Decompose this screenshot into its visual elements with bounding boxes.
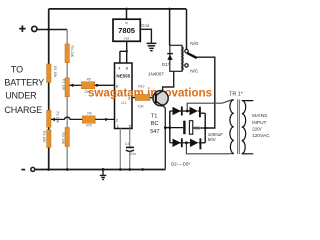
capacitor C4: [126, 146, 134, 148]
label TO BATTERY UNDER CHARGE: [4, 64, 44, 114]
ground symbol at 7805: [147, 43, 157, 50]
wire battery plus lead: [37, 29, 67, 31]
svg-text:Gnd: Gnd: [141, 23, 150, 28]
wire DC minus to emitter line: [165, 127, 183, 129]
wire collector to relay coil: [163, 71, 174, 90]
terminal -: [21, 169, 25, 171]
svg-text:C4: C4: [125, 142, 130, 146]
svg-text:T1: T1: [151, 114, 158, 120]
svg-text:out: out: [124, 36, 130, 41]
wire emitter to bottom rail: [164, 106, 166, 169]
resistor R1: [47, 64, 51, 82]
wire second vertical bus: [66, 30, 68, 170]
diode D2: [173, 107, 181, 115]
resistor R2: [47, 130, 51, 148]
ground symbol on bottom rail: [102, 170, 104, 175]
preset P2 (middle pot): [65, 78, 69, 97]
svg-text:N/O: N/O: [190, 41, 199, 46]
wire R5 to pin 6: [95, 84, 115, 86]
wire pin 3 to R10: [132, 97, 135, 99]
wire 7805 gnd: [140, 29, 151, 42]
wire AC2 bottom to transformer: [186, 143, 233, 154]
svg-text:R1 10K: R1 10K: [53, 66, 57, 78]
svg-text:D2----D5*: D2----D5*: [171, 162, 190, 167]
relay coil box: [169, 9, 171, 45]
svg-text:R3 10K: R3 10K: [61, 133, 65, 145]
wire bridge top row: [170, 110, 201, 112]
node + junction on left bus: [47, 28, 50, 31]
wire NE555 pin 1 to rail: [119, 129, 121, 170]
core lines: [238, 100, 240, 155]
label mains input: [252, 113, 270, 139]
svg-text:BATTERY: BATTERY: [4, 77, 44, 87]
regulator U2 7805: [126, 9, 128, 19]
svg-text:R5: R5: [87, 77, 91, 81]
wire bridge bottom row: [170, 142, 201, 144]
svg-text:INPUT: INPUT: [252, 120, 266, 126]
svg-text:47K: 47K: [86, 123, 93, 127]
svg-text:C5: C5: [194, 125, 200, 130]
wire pot P2 wiper to pin6: [70, 84, 82, 86]
svg-text:D1*: D1*: [162, 62, 170, 67]
svg-text:BC: BC: [151, 121, 159, 127]
wire 7805 out to pins 4 8: [120, 41, 127, 63]
svg-text:R4 22K: R4 22K: [70, 46, 74, 58]
resistor R5: [81, 82, 94, 89]
diode D4: [173, 139, 181, 147]
relay switch N/O N/C: [186, 9, 188, 50]
resistor R10: [135, 95, 150, 101]
diode D3: [190, 107, 198, 115]
wire R10 to base: [150, 97, 156, 99]
capacitor C5: [183, 121, 185, 135]
wire relay pole to DC plus: [197, 57, 215, 128]
terminal +: [19, 25, 25, 32]
svg-text:7805: 7805: [118, 26, 136, 35]
svg-text:547: 547: [150, 129, 159, 135]
svg-text:MAINS: MAINS: [252, 113, 267, 119]
diode D1 1N4007 on relay left edge: [167, 53, 173, 55]
resistor R4: [65, 44, 69, 63]
node junction pin6 wire: [96, 84, 99, 87]
node rail junctions: [47, 168, 50, 171]
svg-text:220/: 220/: [252, 126, 262, 132]
svg-text:P1 10K: P1 10K: [56, 112, 60, 124]
svg-text:UNDER: UNDER: [5, 91, 37, 101]
svg-text:1N4007: 1N4007: [148, 71, 164, 76]
wire bridge left column: [169, 111, 171, 143]
svg-text:R10: R10: [138, 85, 144, 89]
wire pot P1 wiper to pin2 with hop: [51, 117, 82, 119]
wire top rail: [49, 8, 187, 10]
preset P1 (left pot): [47, 110, 51, 127]
diode D5: [190, 139, 198, 147]
resistor R6: [82, 116, 95, 123]
svg-text:120VAC: 120VAC: [252, 133, 270, 139]
wire bridge right column: [204, 113, 206, 143]
svg-text:R2 10K: R2 10K: [42, 131, 46, 143]
wire top row to DC plus column: [201, 112, 205, 114]
svg-text:®: ®: [84, 86, 87, 91]
svg-text:TO: TO: [11, 64, 23, 74]
svg-text:NE555: NE555: [116, 74, 130, 79]
svg-text:R6: R6: [87, 112, 91, 116]
resistor R3: [65, 128, 69, 147]
secondary winding right: [242, 100, 246, 154]
svg-text:01u: 01u: [130, 152, 136, 156]
wire bottom rail: [35, 169, 165, 171]
svg-text:CHARGE: CHARGE: [4, 105, 42, 115]
wire left vertical bus: [48, 9, 50, 170]
svg-text:P2 10K: P2 10K: [62, 79, 66, 91]
svg-text:in: in: [125, 20, 128, 25]
primary winding left: [230, 100, 234, 154]
svg-text:50V: 50V: [208, 137, 216, 142]
svg-text:U1: U1: [121, 100, 127, 105]
svg-text:TR 1*: TR 1*: [229, 91, 244, 97]
svg-text:N/C: N/C: [190, 69, 199, 74]
svg-text:10K: 10K: [138, 104, 145, 108]
wire NE555 pin 5 to C4: [129, 129, 131, 147]
wire mains leads: [242, 101, 254, 154]
op-amp timer U1 NE555 box: [115, 63, 133, 129]
wire R6 to pin 2: [95, 118, 114, 120]
wire AC1 top to transformer: [187, 100, 234, 111]
transistor T1 BC547: [153, 91, 168, 106]
